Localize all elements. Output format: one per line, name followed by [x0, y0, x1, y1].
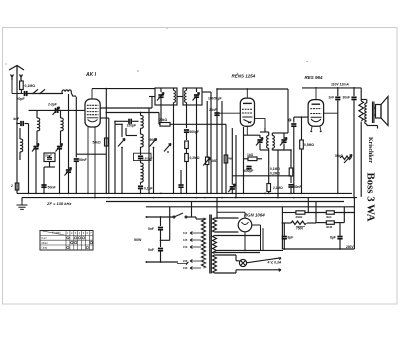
- svg-text:25pF: 25pF: [45, 153, 52, 157]
- variable capacitor C tune2: [57, 147, 62, 149]
- secondary windings: [213, 198, 261, 273]
- resistor on left rail: [15, 183, 18, 190]
- rails 100/50uF: [202, 89, 222, 193]
- grid wire to AK1: [29, 109, 86, 111]
- switch S1b: [40, 89, 45, 93]
- left rail: [16, 74, 18, 194]
- table: [40, 231, 93, 251]
- svg-text:4nF: 4nF: [13, 117, 20, 121]
- svg-text:240: 240: [183, 266, 188, 270]
- svg-text:5nF: 5nF: [148, 227, 154, 231]
- svg-text:0,003µF: 0,003µF: [143, 156, 153, 160]
- svg-text:150: 150: [183, 245, 188, 249]
- wire: bus 2: [22, 197, 357, 199]
- pilot lamp: [239, 259, 246, 266]
- svg-text:2,2MΩ: 2,2MΩ: [273, 186, 283, 190]
- tube U3 RES 964: [308, 88, 338, 130]
- specks: [5, 28, 307, 74]
- svg-text:50kΩ: 50kΩ: [93, 141, 102, 145]
- wire antenna to band switch: [28, 93, 64, 95]
- resistor 2.2M: [268, 148, 270, 183]
- ground: [21, 198, 23, 201]
- svg-text:ZF = 138 kHz: ZF = 138 kHz: [46, 201, 71, 206]
- resistor box F2: [326, 211, 334, 214]
- tube U1 AK1: [85, 89, 100, 198]
- capacitor 50nF b: [288, 185, 293, 187]
- primary taps: [177, 232, 201, 270]
- wire: bus 3: [106, 201, 344, 203]
- wire top res row: [282, 212, 296, 214]
- capacitor 30nF: [351, 97, 356, 99]
- svg-text:3040: 3040: [326, 225, 333, 229]
- svg-text:2: 2: [11, 184, 13, 188]
- rectifier RGN 1064: [217, 212, 263, 250]
- capacitor 50nF: [41, 185, 46, 187]
- coil L2: [20, 139, 23, 152]
- svg-text:30kΩ: 30kΩ: [296, 215, 304, 219]
- svg-text:4kΩ: 4kΩ: [326, 215, 332, 219]
- capacitor 25nF: [214, 113, 219, 115]
- heater wires bottom: [217, 250, 283, 273]
- svg-text:8µF: 8µF: [288, 236, 294, 240]
- svg-text:220: 220: [183, 259, 188, 263]
- svg-text:RGN 1064: RGN 1064: [244, 213, 265, 218]
- coil L6 osc: [141, 163, 144, 176]
- trimmer 25pF box: [44, 153, 55, 193]
- wire RENS top: [217, 88, 288, 90]
- wire rail e: [140, 113, 142, 116]
- pot 50k with arrow: [340, 155, 352, 164]
- svg-text:RENS 1254: RENS 1254: [232, 74, 256, 79]
- grid stub RES: [294, 117, 308, 193]
- svg-text:20pF: 20pF: [17, 97, 26, 101]
- svg-text:110: 110: [183, 231, 188, 235]
- resistor 1k: [244, 157, 263, 161]
- svg-text:4W: 4W: [228, 157, 233, 161]
- power transformer primary: [196, 218, 206, 268]
- svg-text:Kurz: Kurz: [42, 237, 48, 240]
- mid vertical rails: [92, 89, 159, 194]
- svg-text:1kΩ: 1kΩ: [247, 153, 254, 157]
- capacitor 0.1uF: [138, 186, 143, 188]
- svg-text:50nF: 50nF: [48, 186, 57, 190]
- svg-text:50nF: 50nF: [294, 185, 301, 189]
- svg-text:AK I: AK I: [85, 72, 97, 78]
- resistor 0.5M: [301, 117, 303, 140]
- capacitor 600pF b: [246, 167, 251, 169]
- capacitor 150pF: [129, 119, 131, 124]
- svg-text:0,2MΩ: 0,2MΩ: [190, 156, 200, 160]
- svg-text:5nF: 5nF: [148, 248, 154, 252]
- mains switch: [147, 213, 197, 219]
- speaker field resistor: [359, 101, 364, 121]
- svg-text:7500: 7500: [296, 227, 303, 231]
- wire rail c: [121, 124, 123, 137]
- svg-text:4 V, 0,3A: 4 V, 0,3A: [267, 260, 282, 264]
- resistor box F1: [296, 211, 305, 214]
- rails RENS area: [226, 124, 291, 197]
- wire rail a: [105, 89, 107, 194]
- svg-text:30nF: 30nF: [343, 95, 350, 99]
- wire mid link: [126, 135, 137, 137]
- switch S1a: [33, 89, 38, 93]
- wire: ground bus 1: [17, 192, 352, 194]
- switch arm osc b: [150, 139, 157, 147]
- svg-text:280V: 280V: [345, 245, 354, 249]
- svg-text:100/50µF: 100/50µF: [208, 97, 222, 101]
- wire: bus 4: [146, 206, 355, 208]
- 5nF caps rail: [147, 207, 179, 262]
- capacitor 20pF: [12, 80, 24, 94]
- capacitor 600pF: [184, 130, 189, 132]
- coil L5b osc: [141, 134, 144, 147]
- filter network: [282, 198, 354, 249]
- capacitor at 183: [178, 185, 183, 187]
- output transformer: [361, 100, 377, 129]
- svg-text:125: 125: [183, 238, 188, 242]
- switch arm osc a: [118, 139, 125, 147]
- svg-text:50W: 50W: [134, 238, 142, 242]
- svg-text:2-3pF: 2-3pF: [47, 103, 58, 107]
- svg-text:600µF: 600µF: [244, 169, 253, 173]
- svg-text:0,2MΩ: 0,2MΩ: [270, 172, 280, 176]
- coil L4: [61, 118, 64, 131]
- svg-text:0,1MΩ: 0,1MΩ: [25, 84, 36, 88]
- svg-text:50kΩ: 50kΩ: [335, 154, 343, 158]
- IF transformer T2 box: [183, 88, 202, 105]
- capacitor 5nF b: [158, 249, 163, 251]
- wire HT rail: [281, 207, 283, 249]
- svg-text:0,1MΩ: 0,1MΩ: [270, 167, 280, 171]
- speaker: [374, 97, 388, 126]
- tube U2 RENS 1254: [217, 89, 265, 135]
- svg-text:8µF: 8µF: [330, 236, 336, 240]
- wire rail f: [148, 108, 150, 193]
- svg-text:110V 12mA: 110V 12mA: [331, 83, 349, 87]
- wire to switch: [191, 202, 193, 218]
- capacitor 8uF right: [337, 237, 342, 239]
- variable capacitor C tune1: [33, 147, 38, 149]
- transformer core: [209, 215, 211, 274]
- pot 1M arrow: [203, 158, 210, 166]
- resistor box F3: [326, 221, 334, 224]
- switch arm osc c: [164, 144, 171, 152]
- wire AVC: [76, 153, 106, 155]
- wire exit1: [100, 107, 152, 109]
- svg-text:150pF: 150pF: [127, 124, 137, 128]
- svg-text:Boss 3 WA: Boss 3 WA: [365, 173, 377, 222]
- antenna: [9, 66, 24, 81]
- wire second row: [316, 222, 326, 224]
- resistor R1 0.1M: [20, 80, 24, 94]
- capacitor 5nF a: [158, 228, 163, 230]
- trimmer 2-3pF: [56, 108, 58, 113]
- capacitor 8uF left: [282, 237, 287, 239]
- svg-text:50µF: 50µF: [150, 138, 158, 142]
- coil L5a osc: [141, 115, 144, 128]
- resistor 50k vertical: [105, 138, 109, 146]
- capacitor 50nF avc: [74, 159, 79, 161]
- svg-text:RES 964: RES 964: [305, 75, 324, 80]
- svg-text:600pF: 600pF: [190, 130, 200, 134]
- svg-text:Krischker: Krischker: [367, 137, 373, 163]
- resistor box 225: [224, 155, 228, 163]
- svg-text:2nF: 2nF: [329, 95, 335, 99]
- bottom rail: [282, 248, 354, 250]
- trimmer at 232: [230, 187, 235, 189]
- capacitor 4nF: [17, 123, 20, 125]
- HT wire 110V: [302, 88, 361, 101]
- svg-text:Mittel: Mittel: [42, 242, 48, 245]
- IF transformer T1 box: [155, 88, 177, 105]
- wire rail b: [114, 124, 116, 193]
- svg-text:Kontakt: Kontakt: [52, 232, 61, 235]
- svg-text:0,1µF: 0,1µF: [144, 186, 153, 190]
- resistor 0.3M: [185, 141, 189, 149]
- resistor 7500 zigzag: [291, 221, 307, 225]
- resistor 25k: [160, 123, 226, 127]
- resistor vert RENS 0.2M: [289, 168, 293, 176]
- variable cap mid: [66, 170, 71, 172]
- capacitor 0.003uF boxed: [138, 156, 143, 158]
- wire osc link: [106, 112, 159, 114]
- wires below IF1/IF2: [149, 97, 197, 194]
- resistor 0.2M: [185, 154, 189, 162]
- svg-text:25nF: 25nF: [209, 108, 217, 112]
- svg-text:50nF: 50nF: [79, 158, 87, 162]
- wire exit2: [100, 117, 109, 119]
- coil L1 antenna: [62, 90, 76, 96]
- svg-text:25kΩ: 25kΩ: [159, 118, 168, 122]
- coil L3: [37, 118, 40, 131]
- wire plate top: [92, 88, 155, 90]
- IF transformer T3: [244, 127, 292, 193]
- svg-text:0,5MΩ: 0,5MΩ: [304, 143, 314, 147]
- wire down from L1: [75, 97, 77, 155]
- svg-text:1MΩ: 1MΩ: [211, 159, 218, 163]
- capacitor 2nF: [335, 97, 340, 99]
- svg-text:Lang: Lang: [42, 247, 48, 250]
- mains input terminals: [146, 216, 148, 218]
